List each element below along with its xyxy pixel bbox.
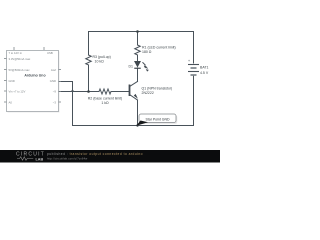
svg-text:http://circuitlab.com/c/7cv64w: http://circuitlab.com/c/7cv64w	[47, 156, 87, 160]
svg-text:2N2222: 2N2222	[142, 91, 154, 95]
svg-text:LAB: LAB	[36, 157, 44, 161]
svg-text:A0: A0	[9, 100, 13, 104]
svg-text:R1 (LED current limit): R1 (LED current limit)	[142, 46, 176, 50]
svg-text:BAT1: BAT1	[200, 66, 209, 70]
svg-text:CIRCUIT: CIRCUIT	[16, 151, 45, 157]
svg-text:10 kΩ: 10 kΩ	[95, 60, 105, 64]
svg-text:R3 (pull-up): R3 (pull-up)	[93, 55, 111, 59]
svg-text:1 kΩ: 1 kΩ	[101, 101, 109, 105]
svg-text:5V@500mA max: 5V@500mA max	[9, 68, 31, 72]
svg-text:D1: D1	[129, 65, 134, 69]
svg-text:R2 (base current limit): R2 (base current limit)	[88, 97, 122, 101]
svg-text:3.3V@50mA max: 3.3V@50mA max	[9, 57, 31, 61]
svg-text:published : transistor output: published : transistor output connected …	[47, 152, 143, 156]
svg-text:GND: GND	[50, 79, 56, 83]
svg-text:Star Point GND: Star Point GND	[145, 117, 170, 121]
svg-text:Aref: Aref	[51, 68, 56, 72]
svg-text:180 Ω: 180 Ω	[142, 50, 152, 54]
svg-text:4.5 V: 4.5 V	[200, 71, 209, 75]
svg-text:Vin +7 to 12V: Vin +7 to 12V	[9, 89, 26, 93]
svg-text:GND: GND	[9, 79, 15, 83]
svg-text:USB: USB	[47, 51, 53, 55]
svg-text:Q1 (NPN transistor): Q1 (NPN transistor)	[142, 87, 173, 91]
svg-text:7 to 12V in: 7 to 12V in	[9, 51, 23, 55]
svg-text:~3: ~3	[53, 100, 57, 104]
svg-text:~9: ~9	[53, 89, 57, 93]
svg-text:Arduino Uno: Arduino Uno	[24, 73, 45, 77]
